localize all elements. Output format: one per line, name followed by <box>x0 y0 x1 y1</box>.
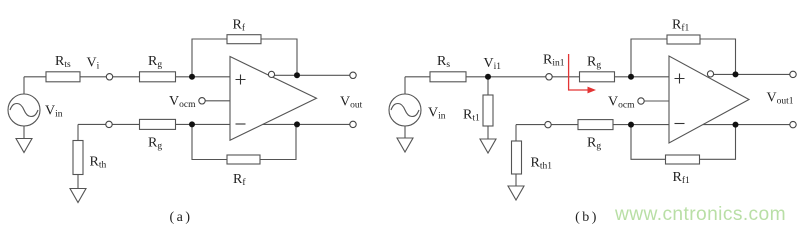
svg-text:Vocm: Vocm <box>169 94 196 110</box>
svg-text:Rf: Rf <box>233 172 246 188</box>
svg-text:Rts: Rts <box>55 54 71 70</box>
svg-text:Rg: Rg <box>587 55 601 71</box>
svg-text:(a): (a) <box>169 210 192 225</box>
svg-text:Rt1: Rt1 <box>463 108 480 124</box>
svg-text:Vin: Vin <box>428 106 446 122</box>
svg-text:www.cntronics.com: www.cntronics.com <box>614 204 786 225</box>
svg-text:Rf1: Rf1 <box>673 170 691 186</box>
svg-text:(b): (b) <box>575 210 599 225</box>
svg-text:Vi1: Vi1 <box>484 56 502 72</box>
svg-text:Rg: Rg <box>148 54 162 70</box>
svg-text:Rg: Rg <box>587 136 601 152</box>
svg-text:Rth1: Rth1 <box>531 156 553 172</box>
svg-text:Vout1: Vout1 <box>767 91 794 107</box>
svg-text:Vi: Vi <box>87 56 100 72</box>
svg-text:Rf: Rf <box>233 18 246 34</box>
svg-text:Vout: Vout <box>340 95 363 111</box>
svg-text:Rs: Rs <box>437 54 450 70</box>
svg-text:Rg: Rg <box>148 136 162 152</box>
svg-text:Vin: Vin <box>45 104 63 120</box>
svg-text:Rf1: Rf1 <box>672 18 690 34</box>
svg-text:Rth: Rth <box>90 155 107 171</box>
svg-text:Rin1: Rin1 <box>543 53 565 69</box>
svg-text:Vocm: Vocm <box>608 95 635 111</box>
